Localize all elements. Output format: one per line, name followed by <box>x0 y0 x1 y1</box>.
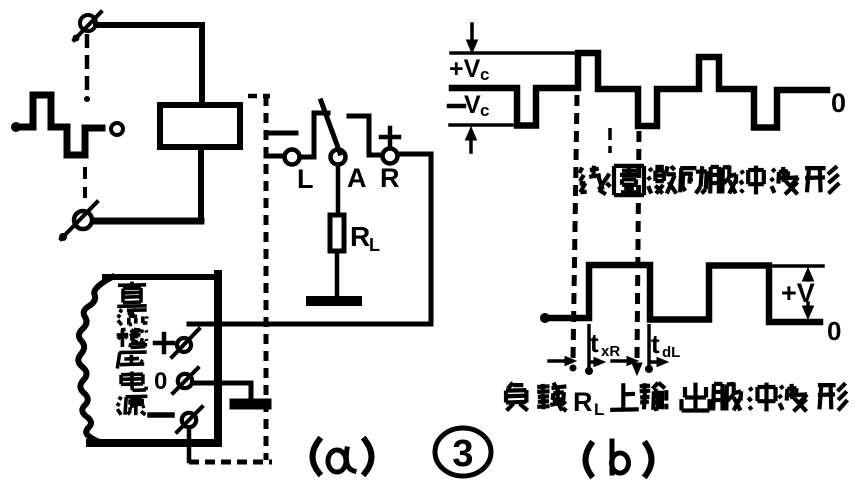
svg-text:A: A <box>347 163 367 193</box>
svg-text:+V: +V <box>449 55 481 83</box>
svg-text:+V: +V <box>781 278 815 308</box>
svg-text:t: t <box>651 329 660 359</box>
svg-text:R: R <box>573 387 593 417</box>
svg-text:dL: dL <box>662 344 680 361</box>
svg-text:0: 0 <box>827 316 841 346</box>
svg-text:xR: xR <box>601 343 620 360</box>
svg-text:R: R <box>350 221 370 252</box>
svg-text:c: c <box>480 65 489 84</box>
svg-text:L: L <box>594 400 604 419</box>
svg-text:L: L <box>297 164 314 194</box>
svg-text:0: 0 <box>831 88 846 118</box>
svg-text:c: c <box>480 101 489 120</box>
svg-text:t: t <box>590 328 599 358</box>
svg-text:3: 3 <box>452 433 473 475</box>
svg-text:L: L <box>369 235 380 255</box>
svg-text:R: R <box>380 163 400 193</box>
svg-text:V: V <box>464 91 481 119</box>
svg-text:0: 0 <box>154 368 167 395</box>
